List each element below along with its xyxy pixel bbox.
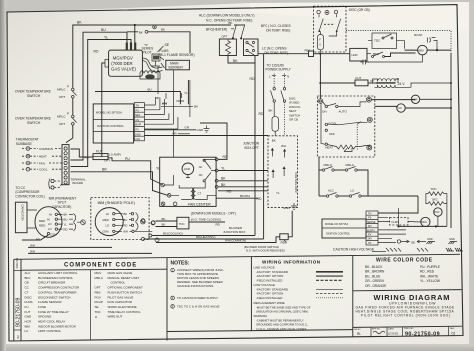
svg-text:BR: BR bbox=[102, 168, 107, 172]
svg-text:MODEL NO.SP715A: MODEL NO.SP715A bbox=[325, 223, 348, 226]
svg-text:OPT: OPT bbox=[59, 95, 65, 99]
BFC/LC contact box bbox=[244, 39, 259, 56]
svg-text:SWITCH: SWITCH bbox=[27, 121, 41, 125]
svg-text:HEAT: HEAT bbox=[325, 146, 333, 150]
svg-text:SUBBASE: SUBBASE bbox=[16, 142, 33, 146]
svg-text:BK: BK bbox=[269, 109, 273, 113]
svg-text:OR...ORANGE: OR...ORANGE bbox=[365, 284, 386, 288]
svg-text:(DOWNFLOW MODELS - OPT): (DOWNFLOW MODELS - OPT) bbox=[191, 211, 236, 215]
svg-text:FLMS: FLMS bbox=[25, 300, 33, 304]
CC coil circle bbox=[375, 106, 397, 108]
component code table bbox=[166, 258, 168, 341]
svg-text:PS: PS bbox=[368, 217, 372, 220]
svg-text:PU...PURPLE: PU...PURPLE bbox=[420, 265, 440, 269]
notes box bbox=[250, 257, 252, 331]
wire YL loop bbox=[71, 40, 132, 167]
svg-text:ALC: ALC bbox=[25, 271, 32, 275]
svg-text:SENSE: SENSE bbox=[367, 221, 376, 224]
svg-text:RD(HEATING): RD(HEATING) bbox=[196, 235, 215, 239]
svg-text:IGN: IGN bbox=[136, 138, 141, 141]
svg-text:DR BY: DR BY bbox=[354, 329, 361, 331]
FUT fuse 1.5A bbox=[71, 149, 94, 157]
lower cap wire bbox=[368, 55, 422, 62]
svg-text:I.C.E.C.-CANADA) AND LOCAL COD: I.C.E.C.-CANADA) AND LOCAL CODES bbox=[256, 327, 307, 331]
svg-text:CHANGE INSTRUCTIONS.: CHANGE INSTRUCTIONS. bbox=[177, 284, 214, 288]
burner scallops bbox=[140, 71, 160, 79]
svg-text:YL: YL bbox=[64, 222, 68, 226]
svg-text:OFF: OFF bbox=[329, 132, 335, 136]
valve bottom wire bbox=[399, 225, 447, 227]
svg-text:YL: YL bbox=[221, 166, 225, 170]
svg-text:COOL: COOL bbox=[39, 168, 48, 172]
brace to terminal bbox=[136, 213, 139, 231]
svg-text:(7000 DER: (7000 DER bbox=[111, 61, 132, 66]
svg-text:SE: SE bbox=[95, 305, 99, 309]
svg-text:PBS: PBS bbox=[281, 241, 287, 245]
svg-text:GND: GND bbox=[25, 315, 33, 319]
svg-text:MRLC: MRLC bbox=[324, 163, 333, 167]
svg-text:TR: TR bbox=[368, 242, 372, 245]
capacitor box bbox=[15, 202, 27, 233]
wire nuts bbox=[271, 148, 274, 151]
svg-text:TDC TO C & H ON GAS VALVE: TDC TO C & H ON GAS VALVE bbox=[177, 305, 219, 309]
svg-text:BK: BK bbox=[162, 217, 166, 221]
right rail bbox=[450, 53, 452, 228]
svg-text:REPLACEMENT WIRE: REPLACEMENT WIRE bbox=[254, 301, 285, 305]
svg-text:SEN: SEN bbox=[135, 114, 140, 117]
TDC box with contact bbox=[372, 33, 397, 49]
svg-text:PU: PU bbox=[125, 157, 130, 161]
svg-text:ON TEMP. RISE): ON TEMP. RISE) bbox=[266, 28, 290, 32]
transformer coils bbox=[378, 79, 396, 82]
svg-text:(IS-1 FLAME SENSOR): (IS-1 FLAME SENSOR) bbox=[159, 53, 195, 57]
svg-text:HI: HI bbox=[49, 213, 52, 217]
wire PU bbox=[108, 158, 162, 185]
svg-text:PILOT RELIGHT CONTROL (NON-1: PILOT RELIGHT CONTROL (NON-100% SSO) bbox=[361, 314, 450, 318]
staircase wires from strip bbox=[144, 105, 178, 129]
svg-text:CT: CT bbox=[198, 191, 202, 195]
fan center right terminals bbox=[215, 158, 218, 161]
svg-text:WH(COMMON): WH(COMMON) bbox=[225, 239, 246, 243]
svg-text:RD: RD bbox=[227, 189, 232, 193]
svg-text:COMPRESSOR CONTACTOR: COMPRESSOR CONTACTOR bbox=[38, 286, 80, 290]
svg-text:BR...BROWN: BR...BROWN bbox=[365, 270, 385, 274]
svg-text:BFC: BFC bbox=[25, 276, 32, 280]
svg-text:RCAP: RCAP bbox=[95, 300, 103, 304]
svg-text:GR...GREEN: GR...GREEN bbox=[365, 279, 384, 283]
wires from right strip bbox=[378, 196, 418, 213]
svg-text:BK: BK bbox=[162, 222, 166, 226]
svg-text:WH: WH bbox=[281, 144, 286, 148]
svg-text:PV: PV bbox=[136, 129, 140, 132]
svg-text:CONTROL: CONTROL bbox=[111, 281, 126, 285]
svg-text:BFC: BFC bbox=[373, 52, 380, 56]
svg-text:NOTES:: NOTES: bbox=[171, 261, 190, 267]
svg-text:PV: PV bbox=[368, 234, 372, 237]
svg-text:24V: 24V bbox=[368, 238, 373, 241]
svg-text:CAUTION HIGH VOLTAGE: CAUTION HIGH VOLTAGE bbox=[333, 248, 375, 252]
svg-text:FLMS: FLMS bbox=[392, 220, 400, 224]
wire drop from PBS line bbox=[263, 54, 265, 239]
svg-text:P: P bbox=[67, 112, 69, 116]
svg-text:FUSE W/ TIME DELAY: FUSE W/ TIME DELAY bbox=[38, 310, 69, 314]
svg-text:12-20-83: 12-20-83 bbox=[388, 331, 399, 335]
svg-text:TH: TH bbox=[368, 213, 372, 216]
svg-text:FUT: FUT bbox=[356, 76, 362, 80]
svg-text:FUSE: FUSE bbox=[38, 305, 46, 309]
wire to terminal board bbox=[66, 125, 73, 143]
svg-text:MGV: MGV bbox=[421, 221, 427, 224]
wire RD riser from fan center bbox=[200, 123, 227, 159]
GR wire and GND bbox=[144, 129, 196, 131]
svg-text:BK: BK bbox=[194, 105, 198, 109]
svg-text:WH: WH bbox=[123, 229, 128, 233]
svg-text:TDC: TDC bbox=[431, 187, 438, 191]
wire LC to PBS to ladder bbox=[258, 53, 309, 55]
svg-text:TH: TH bbox=[136, 105, 140, 108]
CT transformer in fan center bbox=[191, 188, 195, 200]
svg-text:WIRE NUT: WIRE NUT bbox=[108, 315, 123, 319]
dwg number side strip bbox=[13, 259, 15, 341]
brace to terminal bbox=[74, 214, 81, 232]
thermostat dashed box bbox=[317, 96, 374, 157]
svg-text:BU: BU bbox=[123, 218, 127, 222]
svg-text:N.C. OPENS ON TEMP. RISE): N.C. OPENS ON TEMP. RISE) bbox=[206, 18, 252, 22]
svg-text:MRLC: MRLC bbox=[57, 88, 66, 92]
svg-text:BK: BK bbox=[64, 213, 68, 217]
blower wires cooling/heating/common bbox=[149, 234, 152, 237]
svg-text:WH: WH bbox=[162, 102, 167, 106]
svg-text:CT: CT bbox=[25, 290, 29, 294]
ladder left rail bbox=[319, 53, 321, 83]
cool wire to Y terminal bbox=[339, 122, 368, 125]
svg-text:COM: COM bbox=[102, 230, 109, 234]
svg-text:IGNITION CONTROL: IGNITION CONTROL bbox=[97, 124, 124, 128]
svg-text:PUSH BUTTON SWITCH: PUSH BUTTON SWITCH bbox=[108, 290, 142, 294]
svg-text:RL: RL bbox=[357, 332, 361, 336]
pilot tube bbox=[142, 58, 162, 68]
svg-text:BK: BK bbox=[161, 28, 165, 32]
HCR coil rung bbox=[371, 99, 415, 101]
svg-text:PILOT: PILOT bbox=[143, 50, 152, 54]
FU fuse box bbox=[272, 117, 278, 132]
wire BK below heater bbox=[228, 56, 255, 64]
svg-text:FLMS: FLMS bbox=[160, 49, 170, 53]
svg-text:AUXILIARY LIMIT CONTROL: AUXILIARY LIMIT CONTROL bbox=[38, 271, 78, 275]
svg-text:FUT: FUT bbox=[96, 150, 103, 154]
svg-text:MANUAL RESET LIMIT: MANUAL RESET LIMIT bbox=[108, 276, 140, 280]
svg-text:FAN: FAN bbox=[39, 162, 45, 166]
svg-text:WIRING INFORMATION: WIRING INFORMATION bbox=[262, 260, 321, 265]
svg-text:CIRCUIT BREAKER: CIRCUIT BREAKER bbox=[38, 281, 66, 285]
svg-text:JUNCTION BOX: JUNCTION BOX bbox=[294, 172, 298, 193]
svg-text:WH: WH bbox=[30, 243, 35, 247]
svg-text:OPT: OPT bbox=[104, 159, 110, 163]
svg-text:BFC: BFC bbox=[433, 199, 438, 202]
wire into fan center top bbox=[172, 129, 174, 157]
shaded pole motor bbox=[95, 208, 123, 236]
svg-text:BK: BK bbox=[123, 212, 127, 216]
svg-text:DWG NO.: DWG NO. bbox=[404, 328, 414, 330]
svg-text:COMMON: COMMON bbox=[39, 147, 53, 151]
svg-text:(N.O. TIME CLOSING): (N.O. TIME CLOSING) bbox=[191, 217, 221, 221]
SE spark row bbox=[397, 240, 400, 243]
wiring information box bbox=[352, 255, 354, 336]
svg-text:BU: BU bbox=[148, 87, 152, 91]
table top line bbox=[14, 254, 460, 259]
svg-text:MV: MV bbox=[368, 225, 372, 228]
heat anticipator bbox=[337, 145, 371, 149]
svg-text:FU: FU bbox=[25, 305, 29, 309]
wire RD valve left bbox=[102, 63, 105, 157]
svg-text:IBM: IBM bbox=[25, 324, 31, 328]
svg-text:BK: BK bbox=[139, 30, 143, 34]
svg-text:RD...RED: RD...RED bbox=[420, 270, 435, 274]
svg-text:RD: RD bbox=[123, 224, 127, 228]
svg-text:MGV: MGV bbox=[95, 271, 102, 275]
svg-text:BU: BU bbox=[64, 217, 68, 221]
valve top terminals bbox=[126, 43, 128, 51]
svg-text:-FIELD INSTALLED: -FIELD INSTALLED bbox=[256, 296, 283, 300]
svg-text:BK: BK bbox=[221, 177, 226, 181]
svg-text:LIMIT CONTROL: LIMIT CONTROL bbox=[38, 329, 61, 333]
wire BR long bbox=[71, 172, 168, 196]
svg-text:TDC: TDC bbox=[374, 39, 381, 43]
svg-text:SWITCH: SWITCH bbox=[27, 94, 41, 98]
svg-text:WARNING: WARNING bbox=[254, 314, 267, 318]
svg-text:BU...BLUE: BU...BLUE bbox=[365, 274, 380, 278]
svg-text:CONTACTOR COIL): CONTACTOR COIL) bbox=[15, 194, 44, 198]
terminal board bbox=[62, 145, 69, 185]
svg-text:SE: SE bbox=[411, 240, 415, 244]
svg-text:OR CB: OR CB bbox=[289, 118, 298, 122]
svg-text:AUTO: AUTO bbox=[339, 110, 348, 114]
svg-text:YL: YL bbox=[156, 167, 160, 171]
svg-text:HI: HI bbox=[47, 217, 50, 221]
svg-text:HCR: HCR bbox=[25, 320, 32, 324]
wire YL vertical bbox=[187, 80, 189, 104]
junction box dashed bbox=[268, 136, 298, 208]
svg-text:MRLC: MRLC bbox=[57, 115, 66, 119]
svg-text:FAN CENTER: FAN CENTER bbox=[188, 203, 211, 207]
svg-text:OPT: OPT bbox=[59, 122, 65, 126]
svg-text:NO: NO bbox=[199, 174, 203, 177]
svg-text:N: N bbox=[287, 75, 289, 79]
svg-text:GND: GND bbox=[283, 206, 291, 210]
svg-text:BOX-OPT.: BOX-OPT. bbox=[245, 146, 260, 150]
svg-text:DISC: DISC bbox=[25, 295, 33, 299]
svg-text:PGV: PGV bbox=[434, 211, 440, 214]
svg-text:CC: CC bbox=[398, 107, 402, 110]
TDC downflow row bbox=[141, 219, 145, 223]
svg-text:CONTROL TRANSFORMER: CONTROL TRANSFORMER bbox=[38, 290, 77, 294]
main burner box bbox=[166, 60, 190, 70]
svg-text:LC (N.C. OPENS: LC (N.C. OPENS bbox=[262, 46, 286, 50]
wiring diagram title box bbox=[353, 290, 462, 291]
CC pigtail terminals bbox=[51, 179, 54, 182]
shaded pole dashed box bbox=[91, 198, 149, 240]
dotted top line to right rail bbox=[346, 31, 451, 54]
ignition control box left bbox=[93, 104, 133, 143]
FLMS dashed box bbox=[390, 218, 408, 226]
svg-text:REV: REV bbox=[450, 328, 455, 330]
PBS blower door switch bbox=[280, 234, 288, 240]
wires fan center to junction box bbox=[218, 170, 268, 172]
svg-text:ALC (DOWNFLOW MODELS ONLY): ALC (DOWNFLOW MODELS ONLY) bbox=[199, 14, 255, 18]
svg-text:HEAT-COOL RELAY: HEAT-COOL RELAY bbox=[38, 320, 65, 324]
fan center box bbox=[160, 157, 216, 206]
svg-text:GND: GND bbox=[449, 238, 455, 241]
svg-text:HI: HI bbox=[106, 212, 109, 216]
svg-text:MRLC: MRLC bbox=[95, 276, 104, 280]
junction dot valve drop bbox=[134, 24, 136, 26]
svg-text:RD: RD bbox=[64, 227, 68, 231]
svg-text:G: G bbox=[27, 162, 29, 165]
svg-text:(1.5 AMP): (1.5 AMP) bbox=[108, 153, 121, 157]
FU fuse in disc bbox=[318, 35, 324, 50]
svg-text:02: 02 bbox=[16, 335, 20, 339]
svg-text:GAS VALVE): GAS VALVE) bbox=[111, 66, 136, 71]
svg-text:THERMOSTAT: THERMOSTAT bbox=[16, 137, 39, 141]
svg-text:▲: ▲ bbox=[95, 315, 98, 319]
svg-text:RD: RD bbox=[94, 50, 99, 54]
svg-text:ON TEMP. RISE): ON TEMP. RISE) bbox=[264, 51, 288, 55]
HCR relay circle bbox=[182, 163, 194, 175]
svg-text:APP BY: APP BY bbox=[372, 328, 380, 331]
svg-text:BK: BK bbox=[221, 183, 226, 187]
svg-text:IGNITION CONTROL: IGNITION CONTROL bbox=[326, 233, 351, 236]
svg-text:RD: RD bbox=[223, 155, 228, 159]
svg-text:BK...BLACK: BK...BLACK bbox=[365, 265, 383, 269]
svg-text:RD: RD bbox=[250, 77, 255, 81]
HCR contact + BFC contact bbox=[367, 53, 371, 55]
svg-text:CB: CB bbox=[25, 281, 29, 285]
svg-text:IBM: IBM bbox=[419, 48, 425, 52]
DISC dashed box bbox=[314, 6, 347, 52]
svg-text:TIME DELAY CONTROL: TIME DELAY CONTROL bbox=[108, 310, 141, 314]
right terminal strip bbox=[366, 211, 378, 245]
svg-text:MGV/PGV: MGV/PGV bbox=[113, 55, 133, 60]
svg-text:BK/WH: BK/WH bbox=[240, 194, 250, 198]
svg-text:BK: BK bbox=[272, 139, 276, 143]
ignition terminal strip bbox=[134, 103, 144, 141]
svg-text:GND: GND bbox=[135, 133, 141, 136]
svg-text:MAIN GAS VALVE: MAIN GAS VALVE bbox=[108, 271, 133, 275]
svg-text:BK: BK bbox=[77, 21, 82, 25]
svg-text:MRLC: MRLC bbox=[346, 163, 355, 167]
svg-text:BU: BU bbox=[101, 28, 106, 32]
svg-text:DISC (OR CB): DISC (OR CB) bbox=[349, 8, 370, 12]
svg-text:MV/P: MV/P bbox=[135, 124, 141, 127]
svg-text:HEAT: HEAT bbox=[39, 155, 47, 159]
rung HCR bbox=[320, 53, 350, 55]
fan center left terminals bbox=[161, 183, 165, 187]
thermostat terminals bbox=[318, 99, 323, 104]
svg-text:U: U bbox=[319, 44, 321, 47]
svg-text:HCR: HCR bbox=[352, 53, 358, 57]
svg-text:CAPACITOR: CAPACITOR bbox=[21, 205, 25, 221]
MGV circle bbox=[421, 217, 430, 226]
svg-text:90-21750-09: 90-21750-09 bbox=[15, 297, 21, 327]
svg-text:HCR: HCR bbox=[184, 167, 190, 171]
svg-text:SE: SE bbox=[165, 43, 170, 47]
svg-text:YL...YELLOW: YL...YELLOW bbox=[420, 279, 440, 283]
svg-text:MODEL NO.SP715A: MODEL NO.SP715A bbox=[96, 111, 122, 115]
svg-text:02: 02 bbox=[452, 332, 456, 336]
fan switch bbox=[325, 105, 327, 107]
svg-text:COM: COM bbox=[50, 232, 57, 236]
svg-text:OPT: OPT bbox=[222, 35, 228, 39]
svg-text:TDC: TDC bbox=[95, 310, 102, 314]
svg-text:GND: GND bbox=[197, 128, 205, 132]
wire BK top feed bbox=[73, 25, 231, 89]
IBM motor circle bbox=[418, 45, 428, 55]
svg-text:PBS: PBS bbox=[95, 290, 101, 294]
svg-text:MED: MED bbox=[39, 223, 45, 227]
svg-text:PGV: PGV bbox=[95, 295, 101, 299]
svg-text:TDC: TDC bbox=[179, 222, 185, 226]
svg-text:MV: MV bbox=[136, 119, 140, 122]
svg-text:ON: ON bbox=[322, 110, 327, 114]
MRLC switches row bbox=[318, 157, 320, 196]
svg-text:90-21750-09: 90-21750-09 bbox=[405, 331, 440, 337]
wire BU from valve bottom bbox=[95, 92, 180, 105]
svg-text:PBS: PBS bbox=[305, 49, 311, 53]
svg-text:POWER SUPPLY: POWER SUPPLY bbox=[266, 68, 292, 72]
PGV circle bbox=[434, 208, 442, 216]
svg-text:R: R bbox=[27, 148, 29, 151]
svg-text:SPARK ELECTRODE: SPARK ELECTRODE bbox=[108, 305, 137, 309]
svg-text:NC: NC bbox=[199, 166, 203, 169]
svg-text:P: P bbox=[67, 85, 69, 89]
svg-text:IBM (SHADED POLE): IBM (SHADED POLE) bbox=[98, 201, 136, 205]
svg-text:BOARD: BOARD bbox=[73, 181, 85, 185]
ignition control box right bbox=[322, 219, 366, 238]
svg-text:YL: YL bbox=[276, 191, 280, 195]
svg-text:24 V.: 24 V. bbox=[398, 82, 406, 86]
svg-text:MED: MED bbox=[103, 218, 109, 222]
over temperature switch 2 bbox=[72, 98, 74, 116]
svg-text:PS: PS bbox=[136, 109, 140, 112]
power feed dashed L/N bbox=[273, 74, 275, 87]
svg-text:WIRE COLOR CODE: WIRE COLOR CODE bbox=[376, 258, 433, 264]
svg-text:TO 115/1/60 POWER SUPPLY: TO 115/1/60 POWER SUPPLY bbox=[177, 296, 218, 300]
risers to burner area bbox=[158, 70, 190, 117]
svg-text:DWG NO.: DWG NO. bbox=[16, 257, 19, 269]
disconnect switch poles bbox=[273, 88, 275, 90]
svg-text:MV/PV: MV/PV bbox=[367, 229, 375, 232]
transformer rung bbox=[320, 82, 355, 84]
svg-text:YL: YL bbox=[184, 91, 188, 95]
svg-text:INDOOR BLOWER MOTOR: INDOOR BLOWER MOTOR bbox=[38, 324, 77, 328]
svg-text:PILOT GAS VALVE: PILOT GAS VALVE bbox=[108, 295, 134, 299]
switch ALC blades bbox=[234, 24, 245, 26]
svg-text:OPTIONAL COMPONENT: OPTIONAL COMPONENT bbox=[108, 286, 144, 290]
svg-text:BK: BK bbox=[233, 59, 238, 63]
pilot bracket bbox=[151, 54, 160, 66]
svg-text:HCR: HCR bbox=[412, 99, 418, 102]
svg-text:CT: CT bbox=[370, 79, 374, 83]
PSC motor IBM bbox=[35, 207, 62, 238]
svg-text:COMPONENT CODE: COMPONENT CODE bbox=[64, 263, 137, 269]
svg-text:-FIELD INSTALLED: -FIELD INSTALLED bbox=[256, 278, 283, 282]
svg-text:GROUND: GROUND bbox=[38, 315, 52, 319]
svg-text:ALC: ALC bbox=[328, 189, 335, 193]
svg-text:YL: YL bbox=[104, 35, 108, 39]
svg-text:WH: WH bbox=[30, 249, 35, 253]
svg-text:DISCONNECT SWITCH: DISCONNECT SWITCH bbox=[38, 295, 70, 299]
svg-text:RCAP: RCAP bbox=[414, 33, 422, 37]
